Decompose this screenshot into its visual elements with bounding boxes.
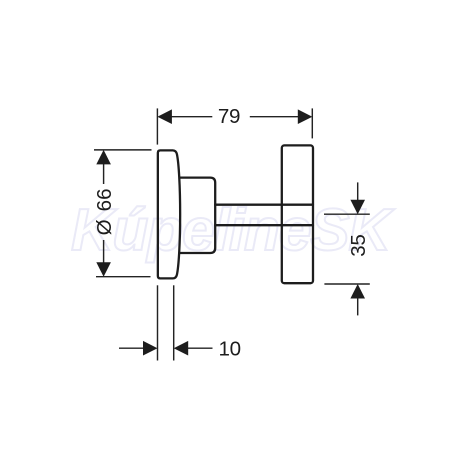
dim 10 left extension line [157, 285, 159, 360]
dim 35 bottom arrow (points up) [350, 284, 365, 299]
dim 35 lower tail line [357, 298, 359, 315]
dim Ø66 line upper segment [103, 163, 105, 184]
dim 10 left tail line [119, 347, 144, 349]
dim Ø66 top arrow [96, 150, 111, 165]
dim 79 line right segment [250, 116, 299, 118]
cross handle (side view rectangle) [282, 145, 313, 283]
svg-text:35: 35 [347, 234, 370, 256]
dim 35 bottom extension line [324, 283, 369, 285]
dim 79 left arrow [157, 109, 172, 124]
dim 35 top arrow (points down) [350, 200, 365, 215]
collar (valve sleeve cylinder) [180, 178, 216, 253]
dim 35 top extension line [324, 213, 370, 215]
dim Ø66 bottom extension line [96, 276, 151, 278]
dim Ø66 top extension line [94, 149, 152, 151]
dim 79 left extension line [156, 108, 158, 144]
stem top line [215, 204, 313, 206]
dim 79 right extension line [311, 108, 313, 138]
stem bottom line [215, 224, 313, 226]
dim 10 right tail line [188, 347, 213, 349]
dim 10 right arrow (points left) [174, 341, 189, 356]
dim Ø66 bottom arrow [96, 262, 111, 277]
svg-text:10: 10 [219, 337, 241, 360]
dim 79 right arrow [298, 109, 313, 124]
dim 10 right extension line [173, 285, 175, 360]
svg-text:Ø 66: Ø 66 [93, 188, 116, 235]
escutcheon plate with dome front (Ø66 wall plate) [158, 150, 180, 278]
svg-text:79: 79 [218, 105, 240, 128]
dim Ø66 line lower segment [103, 240, 105, 263]
dim 79 line left segment [171, 116, 212, 118]
dim 10 left arrow (points right) [143, 341, 158, 356]
dim 35 upper tail line [357, 182, 359, 200]
